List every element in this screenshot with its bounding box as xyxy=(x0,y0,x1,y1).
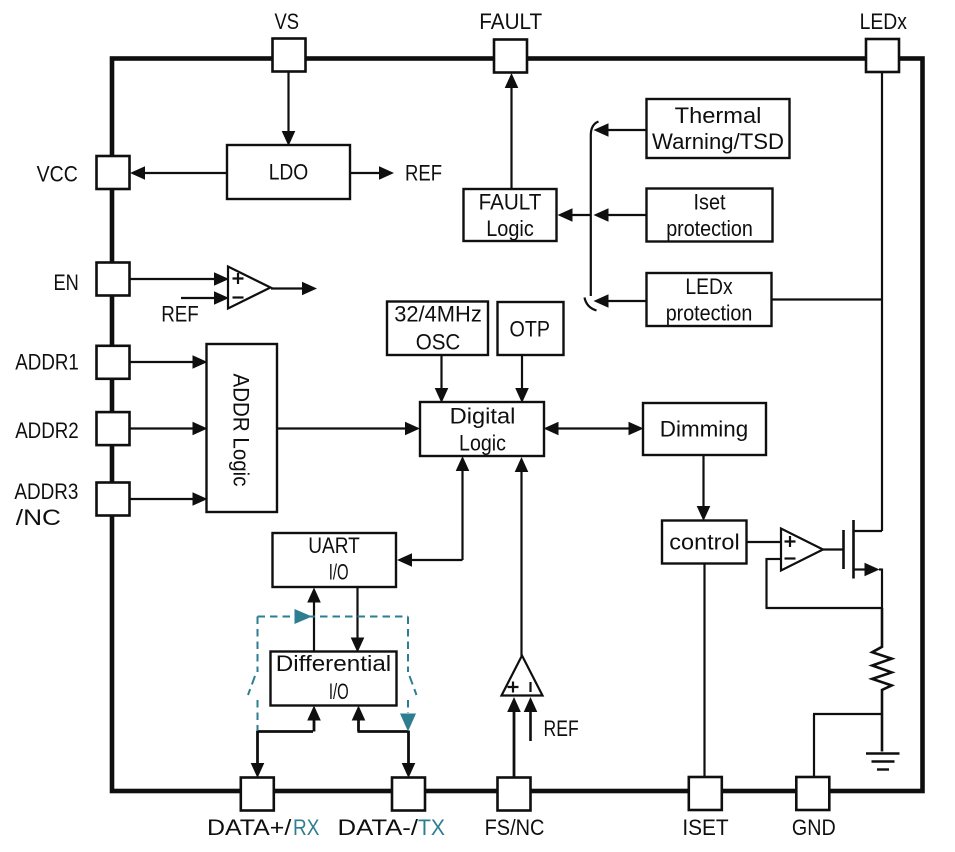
pin FS/NC xyxy=(498,778,531,811)
svg-text:DATA-/: DATA-/ xyxy=(338,815,420,840)
wire source to sense node xyxy=(854,568,867,570)
block LDO xyxy=(227,145,350,199)
svg-text:FS/NC: FS/NC xyxy=(485,815,545,840)
svg-text:Iset: Iset xyxy=(694,190,726,215)
block FAULT Logic xyxy=(464,189,557,241)
wire OSC to Digital Logic xyxy=(440,355,442,389)
wire Iset protection to OR line xyxy=(608,214,647,216)
svg-text:FAULT: FAULT xyxy=(479,9,542,34)
svg-text:VS: VS xyxy=(275,9,300,34)
resistor R1 xyxy=(872,608,892,752)
wire Dimming to control xyxy=(702,455,704,507)
pin EN xyxy=(97,263,130,296)
dashed bus arrow in xyxy=(295,609,313,624)
svg-text:LEDx: LEDx xyxy=(685,274,732,299)
svg-text:OSC: OSC xyxy=(416,329,461,354)
svg-text:Warning/TSD: Warning/TSD xyxy=(652,129,784,154)
svg-text:REF: REF xyxy=(544,716,579,741)
svg-text:I/O: I/O xyxy=(329,559,349,584)
pin FAULT xyxy=(494,40,527,73)
wire UART to Differential xyxy=(356,587,358,638)
pin VS xyxy=(273,39,306,72)
wire Thermal to OR line xyxy=(608,129,647,131)
dashed bus right side xyxy=(407,617,409,673)
pin DATA+ xyxy=(241,778,274,811)
wire amp U4 output to Digital Logic xyxy=(520,470,522,656)
pin ADDR1 xyxy=(97,346,130,379)
wire Digital Logic to Dimming bidirectional xyxy=(557,427,630,429)
op-amp U3 xyxy=(781,529,823,571)
block Iset protection xyxy=(647,189,773,242)
svg-text:ISET: ISET xyxy=(682,815,728,840)
block Dimming xyxy=(643,403,766,455)
svg-text:/NC: /NC xyxy=(16,505,61,530)
wire VS to LDO xyxy=(287,71,289,132)
svg-text:RX: RX xyxy=(293,815,320,840)
svg-text:32/4MHz: 32/4MHz xyxy=(394,301,482,326)
svg-text:Logic: Logic xyxy=(486,216,534,241)
svg-text:control: control xyxy=(669,529,739,554)
wire ADDR Logic to Digital Logic xyxy=(277,427,406,429)
svg-text:GND: GND xyxy=(792,815,836,840)
IC boundary box xyxy=(112,59,923,792)
comparator U2 xyxy=(228,267,271,309)
svg-text:REF: REF xyxy=(161,302,199,327)
wire EN to comparator noninverting input xyxy=(129,278,215,280)
pin ISET xyxy=(689,777,722,810)
block ADDR Logic xyxy=(207,344,278,512)
svg-text:REF: REF xyxy=(405,160,442,185)
svg-text:TX: TX xyxy=(418,815,445,840)
svg-text:Digital: Digital xyxy=(450,403,516,428)
block control xyxy=(662,521,747,564)
wire control to ISET pin xyxy=(703,564,705,780)
block Differential I/O xyxy=(271,652,397,706)
wire feedback to amp U3 inverting input xyxy=(767,558,782,560)
pin LEDx xyxy=(866,39,899,72)
wire amp U3 output to gate xyxy=(823,548,844,550)
dashed bus path top xyxy=(258,616,409,618)
svg-text:VCC: VCC xyxy=(37,162,78,187)
svg-text:Logic: Logic xyxy=(459,430,506,455)
pin ADDR3 xyxy=(97,483,130,516)
wire control to amp U3 xyxy=(747,541,782,543)
node fault-OR line xyxy=(591,122,599,297)
block 32/4MHz OSC xyxy=(387,302,488,356)
svg-text:I/O: I/O xyxy=(329,679,349,704)
svg-text:UART: UART xyxy=(308,533,360,558)
svg-text:ADDR Logic: ADDR Logic xyxy=(229,374,254,487)
pin ADDR2 xyxy=(97,412,130,445)
wire GND pin to sense xyxy=(813,714,815,779)
dashed bus arrow out xyxy=(400,714,416,732)
svg-text:Thermal: Thermal xyxy=(675,103,762,128)
wire FS/NC to amp U4 noninverting input xyxy=(513,710,516,779)
wire REF stub to comparator inverting input xyxy=(181,297,215,299)
svg-text:Differential: Differential xyxy=(276,651,391,676)
wire drain to LEDx rail xyxy=(854,530,883,532)
svg-text:ADDR3: ADDR3 xyxy=(14,479,78,504)
svg-text:OTP: OTP xyxy=(510,317,551,342)
wire Differential to UART xyxy=(313,601,315,652)
pin VCC xyxy=(97,156,130,189)
wire sense node down xyxy=(881,569,883,610)
wire ADDR2 to ADDR Logic xyxy=(129,427,193,429)
wire Differential to DATA- pin xyxy=(352,706,366,721)
op-amp U4 xyxy=(502,656,543,696)
svg-text:ADDR1: ADDR1 xyxy=(15,350,79,375)
block Digital Logic xyxy=(420,402,544,456)
svg-text:FAULT: FAULT xyxy=(479,190,542,215)
wire Digital Logic to UART bidirectional xyxy=(456,456,470,471)
pin DATA- xyxy=(392,778,425,811)
block OTP xyxy=(498,302,564,355)
svg-text:DATA+/: DATA+/ xyxy=(207,815,292,840)
block Thermal Warning/TSD xyxy=(647,99,790,158)
svg-text:LDO: LDO xyxy=(269,159,309,184)
dashed bus left side xyxy=(257,617,259,673)
wire OR line to FAULT Logic xyxy=(571,214,591,216)
wire LDO to REF xyxy=(350,172,380,174)
wire ADDR3 to ADDR Logic xyxy=(129,498,193,500)
svg-text:protection: protection xyxy=(666,301,753,326)
wire Differential to DATA+ pin xyxy=(307,706,321,721)
block UART I/O xyxy=(273,533,397,587)
svg-text:ADDR2: ADDR2 xyxy=(15,418,79,443)
wire FAULT Logic to FAULT pin xyxy=(510,87,512,189)
svg-text:protection: protection xyxy=(666,216,753,241)
ground xyxy=(866,752,900,754)
wire ADDR1 to ADDR Logic xyxy=(129,361,193,363)
transistor Q1 xyxy=(842,530,845,569)
block LEDx protection xyxy=(647,273,772,326)
wire LDO to VCC pin xyxy=(143,172,227,174)
wire comparator U2 output xyxy=(271,287,302,289)
svg-text:LEDx: LEDx xyxy=(860,9,907,34)
wire LEDx rail xyxy=(881,71,883,531)
wire REF to amp U4 inverting input xyxy=(529,710,532,741)
svg-text:EN: EN xyxy=(54,270,79,295)
wire OTP to Digital Logic xyxy=(521,355,523,389)
svg-text:Dimming: Dimming xyxy=(660,416,748,441)
wire LEDx protection to LEDx rail xyxy=(772,298,883,300)
pin GND xyxy=(796,777,829,810)
wire LEDx protection to OR line xyxy=(608,300,647,302)
